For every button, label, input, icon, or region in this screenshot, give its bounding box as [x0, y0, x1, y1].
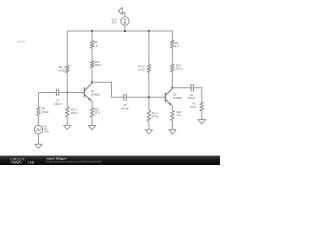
label RC1: [95, 60, 102, 67]
svg-text:1 kHz: 1 kHz: [43, 130, 50, 133]
wire: [66, 93, 68, 108]
transistor Q4: [84, 83, 92, 102]
watermark bar: [0, 156, 220, 165]
wire collector1 stub: [91, 82, 93, 83]
wire emitter2: [171, 106, 173, 111]
ground: [88, 125, 96, 129]
label RE2: [177, 110, 182, 117]
label RE1: [94, 107, 99, 115]
wire: [148, 31, 150, 65]
capacitor C7: [56, 89, 58, 96]
label C8: [121, 103, 129, 111]
label R5: [42, 106, 49, 114]
label RL: [190, 101, 196, 109]
junction base1: [66, 91, 68, 93]
transistor Q5: [165, 89, 172, 107]
watermark url: [47, 159, 103, 163]
resistor R6: [171, 40, 175, 48]
wire: [171, 48, 173, 65]
ground: [169, 130, 176, 134]
wire: [91, 48, 93, 61]
wire: [66, 31, 68, 66]
junction collector2: [171, 87, 173, 89]
wire: [172, 87, 191, 89]
capacitor C9: [191, 84, 193, 92]
svg-text:CIRCUIT: CIRCUIT: [10, 157, 25, 161]
resistor R4: [90, 40, 94, 48]
wire: [91, 68, 93, 83]
resistor R1_2: [147, 64, 151, 72]
svg-text:LAB: LAB: [28, 160, 34, 164]
wire: [38, 92, 56, 94]
wire: [59, 92, 85, 94]
watermark title: [47, 156, 67, 160]
wire: [37, 134, 39, 145]
wire: [171, 121, 173, 130]
label Q5: [173, 92, 182, 100]
wire rail right corner: [171, 31, 173, 41]
label R2_1: [71, 107, 78, 115]
wire VCC rail: [67, 30, 172, 32]
resistor RE1: [90, 108, 94, 117]
label Q4: [91, 89, 100, 97]
resistor R2_2: [147, 111, 151, 121]
svg-text:a = 0: a = 0: [19, 39, 25, 43]
ground: [64, 125, 72, 129]
label C7: [54, 98, 62, 106]
junction rail-RC1: [91, 30, 93, 32]
wire: [91, 31, 93, 41]
wire: [201, 111, 203, 120]
node VCC flag: [118, 7, 125, 17]
watermark logo CIRCUIT LAB: [10, 157, 34, 164]
wire input corner: [37, 93, 39, 108]
ground: [145, 130, 152, 134]
wire output corner: [193, 88, 201, 102]
resistor RC1: [90, 61, 94, 68]
resistor R1_1: [66, 65, 70, 72]
voltage source V6 sine: [34, 125, 42, 133]
wire: [126, 96, 165, 98]
resistor R5: [37, 107, 41, 116]
ground: [35, 144, 42, 148]
wire: [66, 72, 68, 92]
wire: [148, 72, 150, 97]
node annotation a=0: [19, 39, 25, 43]
wire: [171, 72, 173, 88]
resistor RC2: [171, 64, 175, 72]
label R1_1: [58, 65, 66, 73]
junction VCC-rail: [124, 30, 126, 32]
wire: [124, 25, 126, 32]
label R2_2: [152, 111, 159, 119]
wire: [148, 121, 150, 130]
resistor R2_1: [66, 107, 70, 117]
label R1_2: [138, 64, 145, 72]
label V6: [43, 125, 50, 133]
svg-text:https://www.circuitlab.com/c64: https://www.circuitlab.com/c64xh3uq4dv4r…: [47, 159, 103, 163]
label R4: [94, 40, 98, 47]
capacitor C8: [124, 94, 126, 101]
wire collector1 to C8: [92, 82, 124, 97]
resistor RL: [200, 102, 204, 111]
label R6: [175, 41, 179, 48]
junction rail-R1_2: [148, 30, 150, 32]
ground: [198, 120, 206, 124]
wire: [91, 117, 93, 126]
resistor RE2: [171, 110, 175, 120]
wire: [148, 97, 150, 110]
label V1 VCC 20V: [112, 17, 117, 24]
junction collector1: [91, 81, 93, 83]
wire: [66, 117, 68, 125]
label C9: [187, 93, 195, 100]
junction base2: [148, 96, 150, 98]
wire: [37, 115, 39, 125]
voltage source V1: [121, 17, 129, 25]
wire collector2 stub: [171, 88, 173, 89]
wire emitter1: [91, 102, 93, 108]
label RC2: [176, 63, 183, 70]
